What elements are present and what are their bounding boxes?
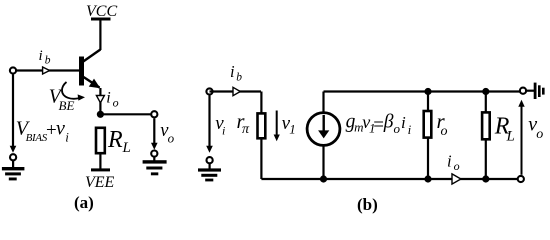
wire to output	[100, 113, 151, 115]
svg-text:i: i	[408, 122, 412, 137]
ground (under v_o)	[143, 160, 167, 163]
wire cs top	[322, 92, 324, 113]
VEE supply bar	[91, 168, 110, 171]
svg-text:β: β	[383, 112, 394, 133]
wire R_L top	[485, 92, 487, 113]
bottom rail	[261, 178, 517, 180]
VCC supply bar	[91, 18, 111, 21]
ground (left)	[2, 167, 25, 170]
resistor r_o	[424, 111, 432, 138]
svg-text:i: i	[447, 151, 452, 170]
wire emitter vertical	[99, 88, 101, 114]
bottom-right terminal	[518, 176, 524, 182]
svg-text:b: b	[236, 72, 242, 84]
node dot	[97, 111, 104, 118]
source node circle	[10, 154, 16, 160]
resistor R_L	[96, 128, 105, 153]
svg-text:o: o	[113, 95, 119, 109]
V_BE curved arrow	[62, 82, 79, 99]
node dot cs-rail	[320, 175, 327, 182]
wire input	[210, 90, 262, 92]
wire r_pi to rail	[260, 138, 262, 179]
svg-text:i: i	[401, 113, 406, 132]
current arrow i_b	[233, 87, 240, 95]
v_i arrow	[208, 96, 210, 148]
svg-text:BIAS: BIAS	[26, 132, 48, 144]
svg-text:BE: BE	[59, 98, 75, 113]
current arrow i_o	[452, 174, 461, 184]
current source arrow	[323, 115, 325, 132]
svg-text:i: i	[222, 124, 225, 138]
v_o arrow	[153, 119, 155, 145]
v_o arrow	[521, 106, 523, 175]
svg-text:π: π	[242, 122, 250, 137]
ground node circle	[151, 151, 157, 157]
ground (rotated, top right)	[534, 83, 537, 99]
svg-text:R: R	[107, 127, 123, 153]
svg-text:o: o	[536, 127, 543, 142]
svg-text:L: L	[506, 129, 515, 145]
wire base	[13, 69, 79, 71]
svg-text:L: L	[122, 140, 131, 156]
svg-text:o: o	[394, 121, 401, 136]
svg-text:VEE: VEE	[85, 174, 115, 191]
svg-text:o: o	[441, 124, 448, 139]
v_1 arrow	[276, 111, 278, 137]
svg-text:i: i	[39, 48, 43, 64]
input terminal	[10, 67, 16, 73]
node dot R_L bottom	[482, 175, 489, 182]
wire stub	[209, 164, 211, 169]
wire collector diagonal	[83, 50, 101, 63]
current source G1	[307, 113, 340, 146]
node dot r_o top	[424, 88, 431, 95]
svg-text:(b): (b)	[357, 195, 378, 214]
svg-text:(a): (a)	[74, 193, 94, 212]
wire to ground	[527, 90, 535, 92]
wire stub	[153, 157, 155, 160]
svg-text:i: i	[230, 62, 235, 81]
svg-text:=: =	[373, 115, 384, 136]
svg-text:i: i	[106, 90, 110, 107]
resistor R_L	[482, 112, 490, 139]
wire R_L bottom	[485, 139, 487, 179]
svg-text:i: i	[65, 130, 69, 145]
output terminal	[151, 111, 157, 117]
wire r_o bottom	[427, 138, 429, 179]
svg-text:o: o	[168, 131, 175, 146]
wire stub to ground	[12, 161, 14, 168]
input terminal	[206, 88, 212, 94]
top rail	[324, 90, 520, 92]
wire collector vertical	[99, 21, 101, 51]
svg-text:o: o	[454, 159, 460, 173]
V_BIAS arrow	[12, 75, 14, 148]
svg-text:VCC: VCC	[86, 3, 117, 20]
current arrow i_b	[43, 67, 50, 74]
svg-text:v: v	[56, 118, 65, 140]
wire to VEE	[99, 155, 101, 170]
transistor Q1 emitter	[84, 77, 100, 88]
node dot r_o bottom	[424, 175, 431, 182]
svg-text:1: 1	[289, 121, 296, 136]
wire down to r_pi	[260, 92, 262, 114]
transistor Q1 base bar	[79, 57, 84, 86]
wire cs bottom	[322, 145, 324, 179]
svg-text:b: b	[45, 55, 51, 67]
wire r_o top	[427, 92, 429, 112]
ground (v_i)	[198, 168, 221, 171]
resistor r_pi	[258, 113, 266, 138]
ground node circle	[207, 157, 213, 163]
top-right terminal	[520, 88, 526, 94]
node dot R_L top	[482, 88, 489, 95]
current arrow i_o	[96, 96, 104, 103]
